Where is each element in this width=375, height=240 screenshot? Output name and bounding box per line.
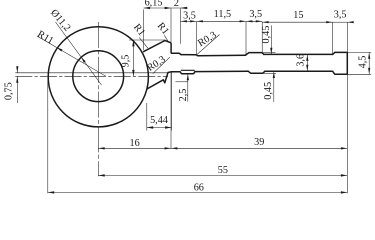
- dim 3.5 groove: [261, 22, 263, 54]
- top flat 2-section: [172, 53, 181, 54]
- bottom scoop dip: [180, 72, 196, 74]
- svg-text:3,6: 3,6: [295, 54, 306, 67]
- dim 2 collar width: [180, 8, 182, 44]
- svg-text:9,5: 9,5: [120, 55, 131, 68]
- dim 11.5: [245, 22, 247, 55]
- wire extension 66 left: [47, 77, 49, 194]
- shaft bottom 15 section: [265, 70, 333, 72]
- dim 6.15 cone length: [143, 10, 145, 50]
- boss top raised 0.45: [246, 53, 264, 55]
- label R0.3 top: [197, 35, 220, 55]
- svg-text:5,44: 5,44: [150, 115, 168, 126]
- boss bottom protruding 0.45: [248, 71, 265, 73]
- inner hole circle D11.2: [73, 51, 124, 102]
- dim 5.44: [146, 103, 148, 131]
- cone top edge: [144, 41, 165, 52]
- dim 0.75 offset: [16, 66, 18, 73]
- svg-text:3,5: 3,5: [249, 9, 262, 20]
- svg-text:4,5: 4,5: [358, 56, 369, 69]
- svg-text:0,75: 0,75: [3, 82, 14, 100]
- dim 0.45 bottom groove: [262, 72, 276, 74]
- shaft bottom 11.5 section: [195, 70, 248, 72]
- svg-text:11,5: 11,5: [214, 9, 231, 20]
- dim 9.5 height: [129, 39, 165, 41]
- label R0.3 lower: [153, 57, 170, 73]
- svg-text:2,5: 2,5: [178, 89, 189, 102]
- dim 3.6 diameter: [306, 55, 308, 72]
- svg-text:2: 2: [174, 0, 179, 9]
- collar bottom flat: [171, 71, 179, 73]
- svg-text:6,15: 6,15: [145, 0, 163, 8]
- svg-text:0,45: 0,45: [263, 82, 274, 100]
- dim 66: [48, 191, 348, 193]
- outer ring circle R11: [48, 27, 148, 127]
- dim 3.5 end block: [346, 22, 348, 52]
- svg-text:0,45: 0,45: [261, 26, 272, 44]
- svg-text:55: 55: [218, 165, 228, 176]
- svg-text:16: 16: [130, 138, 140, 149]
- cone bottom edge: [148, 72, 171, 89]
- dim 4.5 end diameter: [348, 51, 371, 53]
- wire shaft-bottom extension line: [15, 72, 168, 74]
- svg-text:66: 66: [194, 183, 204, 194]
- dim 55: [98, 174, 347, 176]
- top flat 3.5-section: [181, 55, 198, 56]
- wire extension collar-left down: [170, 72, 172, 149]
- shaft top 15 section: [264, 53, 333, 55]
- shaft top 11.5 section: [198, 54, 246, 57]
- svg-text:3,5: 3,5: [183, 10, 196, 21]
- node ring vertical centerline: [97, 22, 99, 176]
- label R11 with leader: [37, 36, 106, 76]
- dim 3.5 first: [196, 22, 198, 55]
- wire extension right end down: [346, 74, 348, 193]
- svg-text:15: 15: [293, 10, 303, 21]
- dim 15: [332, 22, 334, 54]
- dim 16: [98, 147, 171, 149]
- label R1 right: [164, 35, 168, 42]
- label diameter 11.2 with leader: [56, 22, 102, 85]
- block left chamfer top: [333, 52, 335, 54]
- dim 39: [171, 147, 347, 149]
- dim 0.45 top groove: [263, 52, 276, 54]
- node ring horizontal centerline: [15, 75, 168, 77]
- label R1 left: [139, 38, 148, 49]
- svg-text:39: 39: [254, 137, 264, 148]
- block outline: [333, 52, 348, 74]
- peak right descent and face: [165, 41, 172, 54]
- svg-text:3,5: 3,5: [334, 9, 347, 20]
- scoop inner edge: [181, 69, 194, 71]
- dim 2.5: [187, 74, 189, 102]
